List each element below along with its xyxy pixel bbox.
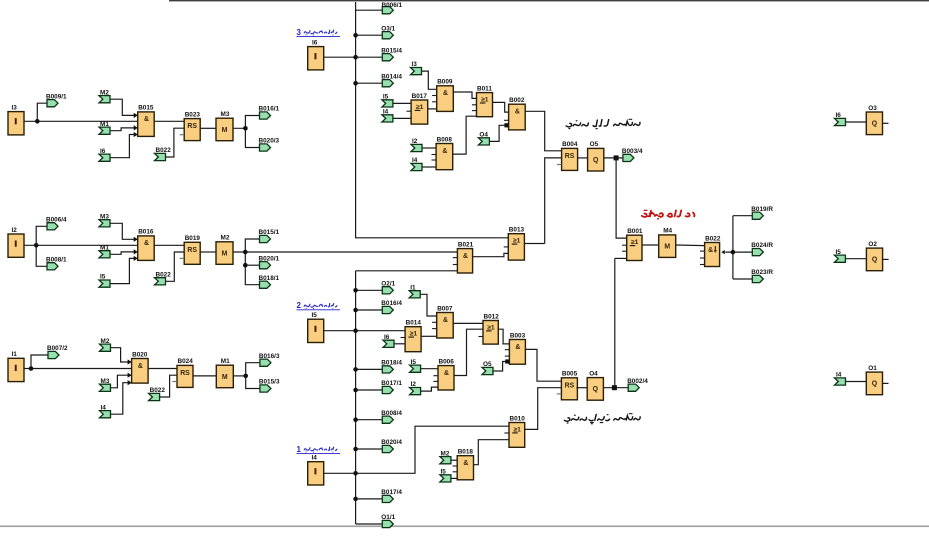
svg-text:I5: I5 — [312, 312, 318, 319]
svg-text:B019/R: B019/R — [751, 206, 773, 213]
svg-text:B020/3: B020/3 — [259, 138, 280, 145]
svg-text:I2: I2 — [412, 138, 418, 145]
svg-text:B022: B022 — [150, 387, 166, 394]
svg-text:B018: B018 — [458, 449, 474, 456]
svg-text:Q: Q — [872, 257, 878, 264]
svg-text:B007: B007 — [437, 305, 453, 312]
svg-text:&: & — [444, 370, 449, 377]
svg-text:&: & — [138, 363, 143, 370]
svg-text:O4: O4 — [479, 132, 488, 139]
svg-text:B014/4: B014/4 — [381, 73, 402, 80]
svg-text:B006: B006 — [439, 358, 455, 365]
svg-text:B017/1: B017/1 — [381, 380, 402, 387]
svg-text:B017/4: B017/4 — [381, 489, 402, 496]
svg-text:B013: B013 — [509, 227, 525, 234]
svg-text:B022: B022 — [156, 147, 172, 154]
svg-text:B005: B005 — [562, 371, 578, 378]
svg-text:I6: I6 — [836, 112, 842, 119]
svg-text:M3: M3 — [101, 378, 110, 385]
svg-text:B022: B022 — [156, 271, 172, 278]
svg-text:O5: O5 — [590, 141, 599, 148]
svg-text:&: & — [708, 247, 713, 254]
svg-text:B008/1: B008/1 — [46, 256, 67, 263]
svg-text:I2: I2 — [12, 227, 18, 234]
svg-text:I5: I5 — [411, 359, 417, 366]
svg-text:B016/4: B016/4 — [381, 300, 402, 307]
svg-text:B022: B022 — [705, 235, 721, 242]
svg-text:M2: M2 — [101, 338, 110, 345]
svg-text:B023: B023 — [185, 111, 201, 118]
svg-text:I4: I4 — [383, 109, 389, 116]
svg-text:M4: M4 — [663, 228, 672, 235]
svg-text:B009/1: B009/1 — [46, 93, 67, 100]
svg-text:O4: O4 — [589, 370, 598, 377]
svg-text:I4: I4 — [312, 455, 318, 462]
svg-text:B016/1: B016/1 — [259, 106, 280, 113]
svg-text:B002: B002 — [509, 97, 525, 104]
svg-text:B018/1: B018/1 — [259, 275, 280, 282]
svg-text:B016/3: B016/3 — [259, 353, 280, 360]
svg-text:M3: M3 — [100, 213, 109, 220]
svg-text:B001: B001 — [627, 228, 643, 235]
svg-text:&: & — [144, 116, 149, 123]
svg-text:B006/4: B006/4 — [46, 216, 67, 223]
svg-text:I6: I6 — [312, 39, 318, 46]
svg-text:I1: I1 — [12, 351, 18, 358]
svg-text:I3: I3 — [12, 104, 18, 111]
svg-text:B015/4: B015/4 — [381, 47, 402, 54]
svg-text:I4: I4 — [412, 157, 418, 164]
svg-text:Q: Q — [872, 381, 878, 388]
svg-text:M: M — [664, 244, 670, 251]
svg-text:Q: Q — [872, 120, 878, 127]
svg-text:B020: B020 — [132, 351, 148, 358]
svg-text:O2: O2 — [868, 241, 877, 248]
svg-text:&: & — [515, 109, 520, 116]
svg-text:&: & — [443, 317, 448, 324]
svg-text:I6: I6 — [100, 148, 106, 155]
svg-text:3: 3 — [297, 28, 302, 37]
svg-text:I5: I5 — [383, 94, 389, 101]
svg-text:B016: B016 — [138, 229, 154, 236]
svg-text:B003/4: B003/4 — [622, 148, 643, 155]
svg-text:M2: M2 — [221, 235, 230, 242]
svg-text:M: M — [222, 374, 228, 381]
svg-text:B021: B021 — [458, 241, 474, 248]
svg-text:B006/1: B006/1 — [382, 2, 403, 9]
svg-text:B020/1: B020/1 — [259, 255, 280, 262]
svg-text:B012: B012 — [484, 313, 500, 320]
svg-text:B015/3: B015/3 — [259, 379, 280, 386]
svg-text:B020/4: B020/4 — [381, 439, 402, 446]
svg-text:B004: B004 — [562, 141, 578, 148]
svg-text:&: & — [443, 90, 448, 97]
svg-text:Q: Q — [593, 157, 599, 164]
svg-text:B003: B003 — [510, 332, 526, 339]
svg-text:RS: RS — [180, 370, 190, 377]
svg-text:&: & — [144, 240, 149, 247]
svg-text:B015: B015 — [138, 105, 154, 112]
svg-text:&: & — [463, 460, 468, 467]
svg-text:O3/1: O3/1 — [381, 25, 395, 32]
svg-text:M2: M2 — [441, 450, 450, 457]
svg-text:I1: I1 — [410, 284, 416, 291]
svg-text:I5: I5 — [836, 249, 842, 256]
svg-text:B009: B009 — [437, 79, 453, 86]
svg-text:B007/2: B007/2 — [47, 345, 68, 352]
svg-text:I4: I4 — [836, 372, 842, 379]
svg-text:I5: I5 — [100, 274, 106, 281]
svg-text:O5: O5 — [483, 361, 492, 368]
svg-text:2: 2 — [297, 301, 302, 310]
svg-text:B002/4: B002/4 — [627, 378, 648, 385]
svg-text:B008/4: B008/4 — [381, 410, 402, 417]
svg-text:I3: I3 — [412, 61, 418, 68]
svg-text:B018/4: B018/4 — [381, 360, 402, 367]
svg-text:&: & — [463, 253, 468, 260]
svg-text:RS: RS — [187, 123, 197, 130]
svg-text:&: & — [442, 148, 447, 155]
svg-text:M1: M1 — [221, 358, 230, 365]
svg-text:&: & — [515, 344, 520, 351]
svg-text:1: 1 — [297, 445, 302, 454]
svg-text:I4: I4 — [101, 404, 107, 411]
svg-text:M2: M2 — [100, 89, 109, 96]
svg-text:B017: B017 — [412, 93, 428, 100]
svg-text:B024: B024 — [178, 358, 194, 365]
svg-text:M3: M3 — [221, 111, 230, 118]
svg-text:I2: I2 — [411, 381, 417, 388]
svg-text:B014: B014 — [406, 320, 422, 327]
svg-text:B024/R: B024/R — [751, 242, 773, 249]
svg-text:B019: B019 — [185, 235, 201, 242]
svg-text:M: M — [222, 127, 228, 134]
svg-text:RS: RS — [565, 153, 575, 160]
svg-text:O2/1: O2/1 — [381, 280, 395, 287]
svg-text:B015/1: B015/1 — [259, 229, 280, 236]
svg-text:O1/1: O1/1 — [381, 514, 395, 521]
svg-text:M: M — [222, 250, 228, 257]
svg-text:RS: RS — [565, 382, 575, 389]
svg-text:B023/R: B023/R — [751, 269, 773, 276]
svg-text:I6: I6 — [384, 334, 390, 341]
svg-text:M1: M1 — [100, 244, 109, 251]
svg-text:O3: O3 — [868, 105, 877, 112]
svg-text:O1: O1 — [868, 365, 877, 372]
svg-text:B011: B011 — [477, 85, 492, 92]
svg-text:I5: I5 — [441, 469, 447, 476]
svg-text:RS: RS — [187, 247, 197, 254]
svg-text:Q: Q — [593, 386, 599, 393]
svg-text:B008: B008 — [437, 136, 453, 143]
svg-text:M1: M1 — [100, 121, 109, 128]
svg-text:B010: B010 — [510, 415, 526, 422]
